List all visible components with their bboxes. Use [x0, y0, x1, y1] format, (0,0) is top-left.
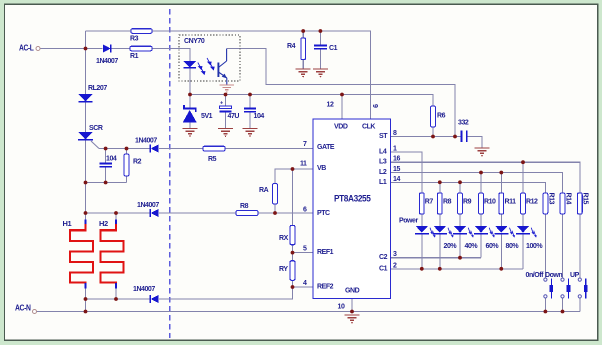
svg-text:VB: VB: [317, 165, 326, 172]
svg-text:Down: Down: [545, 272, 562, 279]
optocoupler U1 CNY70 box: [179, 35, 240, 81]
svg-text:1: 1: [393, 145, 397, 152]
wire RY to row 299: [159, 280, 293, 299]
svg-text:H2: H2: [99, 219, 108, 228]
thyristor SCR: [78, 125, 103, 140]
diode RL207: [79, 85, 108, 102]
wire C1 bottom to ground: [319, 49, 321, 69]
svg-text:2: 2: [393, 262, 397, 269]
wire VDD rail: [190, 95, 433, 107]
resistor R3: [130, 29, 152, 43]
svg-text:8: 8: [393, 130, 397, 137]
IC pin label GND pin 10: [338, 288, 360, 311]
wire PTC diode to R8: [159, 212, 236, 214]
wire VDD pin 12: [341, 95, 343, 120]
wire LED3 cathode to C2 row: [459, 235, 461, 258]
wire LED6 cathode to C1 row: [522, 235, 524, 269]
wire C2 row: [391, 257, 482, 259]
heater H1: [63, 219, 94, 289]
ground IC GND: [345, 315, 360, 324]
svg-text:1N4007: 1N4007: [135, 138, 157, 145]
node IC GND: [350, 310, 354, 314]
node H2 bottom: [114, 297, 118, 301]
svg-text:GATE: GATE: [317, 144, 335, 151]
wire R2 bottom: [126, 176, 128, 183]
wire L1 row: [391, 182, 546, 193]
wire VB row to RA: [275, 169, 313, 184]
node snubber row left: [84, 181, 88, 185]
optocoupler phototransistor: [218, 49, 227, 85]
ground 104: [243, 129, 258, 138]
optocoupler LED: [183, 61, 196, 68]
wire top rail left of R3: [86, 30, 132, 32]
wire zener bottom to ground: [189, 123, 191, 129]
wire R10 top stub: [480, 173, 482, 194]
resistor RA: [259, 184, 277, 205]
wire left bus SCR to heater row: [85, 140, 87, 220]
resistor R1: [130, 46, 152, 60]
svg-text:15: 15: [393, 166, 400, 173]
svg-text:Power: Power: [399, 218, 418, 225]
svg-text:100%: 100%: [526, 243, 543, 250]
wire L2 row: [391, 173, 563, 194]
diode D1 1N4007: [96, 44, 118, 65]
svg-text:R6: R6: [437, 113, 446, 120]
node 47U top: [224, 93, 228, 97]
wire AC-L row diode gap: [86, 48, 103, 50]
IC pin label L2 pin 15: [379, 166, 400, 176]
svg-text:6: 6: [303, 207, 307, 214]
wire left bus top: [85, 31, 87, 94]
svg-text:SCR: SCR: [89, 125, 103, 132]
node R4 top: [301, 29, 305, 33]
wire AC-L lead: [40, 48, 86, 50]
IC pin label REF1 pin 5: [303, 246, 334, 257]
svg-text:40%: 40%: [465, 243, 479, 250]
wire snubber bottom row: [86, 182, 127, 184]
resistor RY: [279, 261, 295, 281]
wire top rail R3 to CLK corner: [152, 31, 371, 119]
svg-text:3: 3: [393, 251, 397, 258]
svg-text:R15: R15: [582, 193, 589, 205]
svg-text:80%: 80%: [506, 243, 520, 250]
terminal AC-L: [19, 44, 40, 53]
resistor R5: [203, 146, 225, 163]
svg-text:ST: ST: [379, 133, 388, 140]
svg-text:R10: R10: [484, 199, 496, 206]
wire 47U cap top: [225, 95, 227, 107]
button UP: [570, 272, 588, 299]
resistor RX: [279, 225, 295, 244]
svg-text:CLK: CLK: [362, 124, 375, 131]
svg-text:11: 11: [300, 161, 307, 168]
svg-text:1N4007: 1N4007: [96, 58, 118, 65]
wire Down button to AC-N rail: [562, 298, 564, 311]
wire On/Off button to AC-N rail: [544, 298, 546, 311]
wire diode to R1: [112, 48, 131, 50]
svg-text:5V1: 5V1: [201, 113, 213, 120]
svg-text:PTC: PTC: [317, 210, 330, 217]
node AC-L junction: [84, 47, 88, 51]
wire left bus RL207 to SCR: [85, 102, 87, 132]
svg-text:12: 12: [327, 102, 334, 109]
wire R9 top stub: [459, 182, 461, 193]
wire RX to RY: [292, 245, 294, 261]
node LED5 C1: [499, 267, 503, 271]
node R6 bottom ST: [431, 135, 435, 139]
node LED3 C2: [458, 256, 462, 260]
svg-text:L1: L1: [379, 179, 387, 186]
resistor R14: [560, 193, 571, 215]
svg-text:R3: R3: [130, 36, 139, 43]
wire C1 top: [319, 31, 321, 45]
svg-text:RA: RA: [259, 187, 269, 194]
svg-text:R7: R7: [425, 199, 434, 206]
ground opto emitter: [220, 85, 235, 93]
resistor R15: [577, 193, 588, 215]
svg-text:L2: L2: [379, 169, 387, 176]
svg-text:1N4007: 1N4007: [133, 286, 155, 293]
wire LED1 column: [421, 214, 423, 226]
svg-text:7: 7: [303, 141, 307, 148]
node H1 top: [84, 211, 88, 215]
svg-text:RY: RY: [279, 266, 288, 273]
svg-text:PT8A3255: PT8A3255: [334, 193, 372, 204]
button On/Off: [526, 272, 554, 299]
wire 104 snubber cap top: [105, 149, 107, 164]
wire LED5 cathode to C1 row: [500, 235, 502, 269]
svg-text:104: 104: [254, 113, 265, 120]
resistor R9: [458, 193, 472, 214]
wire 104 cap bottom to ground: [249, 112, 251, 129]
optocoupler received light arrows: [207, 58, 214, 70]
wire LED4 cathode to C2 row: [480, 235, 482, 258]
svg-text:9: 9: [371, 104, 378, 108]
diode D2 1N4007 (gate): [135, 138, 159, 153]
svg-text:UP: UP: [570, 272, 580, 279]
wire H2 bottom lead: [115, 288, 117, 299]
wire opto collector to ST: [227, 49, 455, 137]
IC pin label ST pin 8: [379, 130, 397, 140]
wire 47U cap bottom to ground: [225, 111, 227, 128]
svg-text:R9: R9: [463, 199, 472, 206]
IC pin label L1 pin 14: [379, 176, 400, 186]
wire H2 top lead: [115, 213, 117, 220]
svg-text:R4: R4: [287, 43, 296, 50]
button Down: [545, 272, 570, 299]
svg-text:AC-N: AC-N: [15, 304, 31, 313]
wire R12 top stub: [522, 162, 524, 193]
optocoupler LED emission arrows: [198, 63, 205, 75]
wire SCR gate diagonal: [91, 141, 99, 149]
wire UP button to AC-N rail: [579, 298, 581, 311]
svg-text:1N4007: 1N4007: [137, 202, 159, 209]
IC pin label PTC pin 6: [303, 207, 330, 218]
svg-text:60%: 60%: [486, 243, 500, 250]
LED2 20%: [433, 226, 458, 250]
wire zener top: [189, 95, 191, 109]
resistor R7: [419, 193, 433, 214]
node LED2 C1: [438, 267, 442, 271]
svg-text:R11: R11: [505, 199, 517, 206]
wire LED2 cathode to C1 row: [439, 235, 441, 269]
resistor R4: [287, 38, 306, 60]
node REF1: [291, 251, 295, 255]
wire LED6 column: [522, 214, 524, 226]
resistor R8b: [437, 193, 451, 214]
svg-text:R8: R8: [240, 203, 249, 210]
IC pin label L4 pin 1: [379, 145, 397, 155]
svg-text:332: 332: [458, 120, 469, 127]
resistor R12: [521, 193, 538, 214]
wire R6 bottom: [432, 127, 434, 137]
node H2 top: [114, 211, 118, 215]
wire R2 top: [126, 149, 128, 155]
wire L4 row: [391, 152, 422, 193]
node RA bottom PTC: [273, 211, 277, 215]
wire 332 cap to ground corner: [467, 137, 482, 149]
svg-text:16: 16: [393, 156, 400, 163]
resistor R11: [499, 193, 516, 214]
capacitor 104 (snubber): [100, 156, 117, 167]
wire REF2 pin: [293, 286, 314, 288]
wire 104 cap top: [249, 95, 251, 109]
svg-text:GND: GND: [345, 288, 360, 295]
diode D3 1N4007 (PTC row): [137, 202, 159, 217]
wire R1 to opto LED: [152, 49, 190, 61]
svg-text:REF1: REF1: [317, 249, 334, 256]
node R11 top L2: [499, 171, 503, 175]
node AC-N left: [84, 310, 88, 314]
zener diode 5V1: [183, 105, 213, 122]
IC pin label REF2 pin 4: [303, 280, 334, 291]
IC pin label C2 pin 3: [379, 251, 397, 261]
resistor R8 (PTC): [236, 203, 258, 215]
svg-text:C1: C1: [329, 45, 338, 52]
IC pin label CLK pin 9: [362, 104, 378, 131]
ground C1: [313, 69, 328, 78]
node R2 top: [125, 147, 129, 151]
svg-text:VDD: VDD: [334, 124, 348, 131]
wire REF1 pin: [293, 252, 314, 254]
capacitor 332: [458, 120, 469, 143]
wire L3 row: [391, 162, 580, 193]
IC pin label L3 pin 16: [379, 156, 400, 166]
wire R15 to UP button: [579, 214, 581, 278]
capacitor C1: [314, 45, 338, 52]
svg-text:REF2: REF2: [317, 284, 334, 291]
wire R8 to PTC pin: [258, 212, 313, 214]
svg-text:RL207: RL207: [88, 85, 107, 92]
ground 47U: [218, 129, 233, 138]
svg-text:0n/Off: 0n/Off: [526, 272, 545, 279]
svg-text:20%: 20%: [444, 243, 458, 250]
node 104 snubber bottom: [104, 181, 108, 185]
wire heater bottom row to diode: [86, 298, 151, 300]
LED5 80%: [494, 226, 519, 250]
svg-text:R1: R1: [130, 53, 139, 60]
resistor R10: [479, 193, 496, 214]
node C1 top: [319, 29, 323, 33]
LED1 Power: [415, 226, 436, 237]
wire R13 to On/Off button: [544, 214, 546, 278]
wire H1 top lead: [85, 213, 87, 220]
wire LED3 column: [459, 214, 461, 226]
svg-text:L3: L3: [379, 159, 387, 166]
wire R4 top: [302, 31, 304, 38]
node H1 bottom: [84, 297, 88, 301]
node R9 top L1: [458, 180, 462, 184]
IC U2 PT8A3255 body: [313, 119, 391, 299]
mains isolation dashed line: [169, 9, 171, 338]
svg-text:R13: R13: [548, 193, 555, 205]
svg-text:C1: C1: [379, 265, 388, 272]
svg-text:CNY70: CNY70: [184, 38, 205, 45]
wire ST row: [391, 136, 462, 138]
wire R8 top stub: [439, 182, 441, 193]
diode D4 1N4007 (bottom): [133, 286, 159, 303]
resistor R2: [124, 154, 142, 176]
node zener top: [188, 93, 192, 97]
resistor R6: [431, 106, 446, 127]
wire LED5 column: [500, 214, 502, 226]
svg-text:R8: R8: [443, 199, 452, 206]
node VB: [291, 167, 295, 171]
node Down bottom: [561, 310, 565, 314]
svg-text:R14: R14: [565, 193, 572, 205]
heater H2: [99, 219, 124, 289]
wire AC-N rail: [37, 311, 581, 313]
svg-text:RX: RX: [279, 235, 289, 242]
wire LED4 column: [480, 214, 482, 226]
capacitor 104 (VDD): [244, 109, 264, 121]
svg-text:R12: R12: [526, 199, 538, 206]
wire gate row to diode: [99, 148, 150, 150]
node VDD: [340, 93, 344, 97]
IC pin label GATE pin 7: [303, 141, 335, 151]
wire chip GND pin: [351, 299, 353, 312]
terminal AC-N: [15, 304, 37, 314]
svg-text:R5: R5: [208, 156, 217, 163]
svg-text:14: 14: [393, 176, 400, 183]
svg-text:R2: R2: [133, 159, 142, 166]
svg-text:L4: L4: [379, 148, 387, 155]
wire R5 to GATE pin: [225, 148, 313, 150]
node 104 top: [248, 93, 252, 97]
wire C1 row: [391, 268, 524, 270]
LED6 100%: [516, 226, 543, 250]
svg-text:104: 104: [106, 156, 117, 163]
wire RA bottom: [274, 204, 276, 213]
node REF2: [291, 285, 295, 289]
IC pin label VDD pin 12: [327, 102, 348, 131]
svg-text:10: 10: [338, 304, 345, 311]
wire PTC row left: [86, 212, 151, 214]
node R10 top L2: [479, 171, 483, 175]
wire left bus heater bottom to AC-N: [85, 288, 87, 312]
LED4 60%: [474, 226, 499, 250]
svg-text:H1: H1: [63, 219, 72, 228]
wire opto LED cathode to VDD rail: [189, 68, 191, 95]
svg-text:5: 5: [303, 246, 307, 253]
node 104 snubber top: [104, 147, 108, 151]
ground 332: [475, 148, 490, 157]
node R12 top L3: [521, 160, 525, 164]
wire R4 bottom to ground: [302, 60, 304, 70]
wire 104 snubber cap bottom: [105, 167, 107, 183]
wire VB to RX: [292, 169, 294, 225]
wire R14 to Down button: [562, 214, 564, 278]
wire LED1 cathode to C1 row: [421, 235, 423, 269]
wire R11 top stub: [500, 173, 502, 194]
resistor R13: [543, 193, 555, 215]
wire LED2 column: [439, 214, 441, 226]
node LED1 C1: [420, 267, 424, 271]
IC pin label C1 pin 2: [379, 262, 397, 272]
svg-text:AC-L: AC-L: [19, 44, 34, 53]
ground R4: [296, 69, 311, 78]
svg-text:47U: 47U: [228, 113, 240, 120]
node R8 top L1: [438, 180, 442, 184]
ground zener: [183, 129, 198, 138]
node On/Off bottom: [544, 310, 548, 314]
node ST cap: [453, 135, 457, 139]
svg-text:C2: C2: [379, 254, 388, 261]
svg-text:4: 4: [303, 280, 307, 287]
LED3 40%: [453, 226, 478, 250]
capacitor 47U electrolytic: [219, 101, 239, 121]
wire gate diode to R5: [159, 148, 203, 150]
IC pin label VB pin 11: [300, 161, 326, 173]
